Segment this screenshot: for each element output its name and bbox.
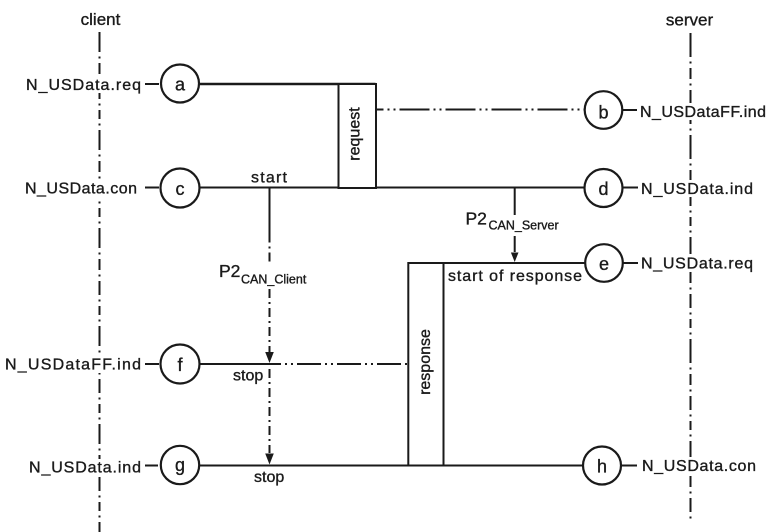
svg-text:start: start [251,170,288,187]
connector dash c [145,187,159,189]
node g circle [161,446,199,484]
node h circle [583,447,621,485]
label N_USData.req row a background [24,76,143,93]
label N_USData.con row c background [23,180,140,197]
connector dash f [145,363,159,365]
svg-text:request: request [347,107,364,161]
P2 server arrowhead at start of response [511,253,519,263]
server lifeline [690,33,692,523]
svg-text:client: client [81,10,121,29]
P2 client measurement line dash segment 2 [269,289,271,353]
wire row c-d [198,187,585,189]
svg-text:N_USData.ind: N_USData.ind [641,181,753,198]
P2 client arrowhead at stop g [265,454,274,465]
label N_USDataFF.ind row f background [3,356,144,373]
svg-text:CAN_Client: CAN_Client [241,273,307,287]
request box [339,84,377,188]
connector dash b [622,109,638,111]
svg-text:a: a [175,75,186,95]
node f circle [161,345,200,384]
connector dash e [623,262,639,264]
node b circle [585,91,623,129]
client lifeline [99,32,101,532]
connector dash a [145,83,159,85]
node e circle [585,244,623,282]
svg-text:N_USData.req: N_USData.req [641,256,753,273]
svg-text:stop: stop [254,469,284,486]
P2 client measurement line dash segment 3 [269,369,271,453]
svg-text:N_USDataFF.ind: N_USDataFF.ind [5,357,141,374]
P2 server measurement line solid segment [514,188,516,215]
wire row b [376,109,585,111]
wire row a [198,83,376,85]
label N_USData.ind row g background [27,459,144,476]
svg-text:N_USData.req: N_USData.req [26,77,141,94]
wire row g-h [198,465,584,467]
label N_USData.con row h background [640,457,758,474]
connector dash h [621,465,637,467]
svg-text:e: e [599,254,609,274]
node a circle [161,65,199,103]
svg-text:N_USData.con: N_USData.con [25,181,137,198]
svg-text:response: response [417,329,434,395]
svg-text:start of response: start of response [448,268,582,285]
wire row f solid [198,363,257,365]
svg-text:g: g [175,455,185,475]
P2 client arrowhead at stop f [265,352,274,363]
svg-text:P2: P2 [219,261,240,281]
svg-text:P2: P2 [466,209,487,229]
node d circle [585,169,623,207]
connector dash g [145,465,158,467]
wire row f dashed [257,363,409,365]
label N_USData.req row e background [639,254,756,271]
svg-text:d: d [598,179,608,199]
response box [408,263,443,466]
svg-text:N_USData.ind: N_USData.ind [29,460,141,477]
connector dash d [622,187,638,189]
svg-text:h: h [597,457,607,477]
wire row e [408,262,586,264]
svg-text:c: c [176,179,185,199]
svg-text:server: server [666,11,714,30]
P2 client measurement line solid segment [269,188,271,234]
label N_USDataFF.ind row b background [638,103,766,120]
svg-text:N_USData.con: N_USData.con [642,458,756,475]
svg-text:b: b [598,103,608,123]
node c circle [161,169,200,208]
svg-text:stop: stop [233,368,263,385]
P2 server measurement line lower segment [514,236,516,252]
label N_USData.ind row d background [639,180,756,197]
P2 client measurement line dash segment 1 [269,234,271,263]
svg-text:CAN_Server: CAN_Server [489,219,559,233]
svg-text:N_USDataFF.ind: N_USDataFF.ind [640,104,766,121]
